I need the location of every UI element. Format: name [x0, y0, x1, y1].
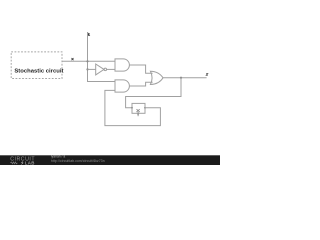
node at inverter input branch [86, 68, 88, 70]
svg-text:LAB: LAB [25, 160, 35, 165]
wire AND2 output to OR lower input [129, 82, 152, 86]
AND gate U2 [115, 59, 129, 71]
label k [88, 33, 90, 36]
node on z wire [180, 77, 182, 79]
flip-flop U5 [131, 103, 146, 116]
wire flip-flop Q to AND2 lower input [105, 90, 160, 125]
inverter U1 [96, 64, 107, 75]
wire x from box to AND1 [62, 60, 115, 62]
svg-text:Stochastic circuit: Stochastic circuit [14, 68, 63, 74]
label z [206, 74, 208, 76]
wire AND1 output to OR upper input [130, 65, 153, 73]
wire inverter output to AND1 [107, 68, 116, 70]
svg-text:http://circuitlab.com/circuit/: http://circuitlab.com/circuit/6kz73n [51, 159, 105, 163]
logo squiggle [10, 162, 17, 164]
wire z output [163, 77, 207, 79]
logo lightning [21, 161, 24, 165]
wire inverter input [88, 68, 96, 70]
node at x/k cross [86, 60, 88, 62]
stochastic circuit box B1 [11, 52, 63, 79]
wire z feedback to flip-flop D input [126, 78, 181, 108]
wire k vertical and to AND2 top input [88, 32, 116, 82]
AND gate U3 [115, 80, 129, 92]
label x [72, 58, 74, 60]
OR gate U4 [150, 71, 163, 84]
footer bar [0, 155, 220, 165]
